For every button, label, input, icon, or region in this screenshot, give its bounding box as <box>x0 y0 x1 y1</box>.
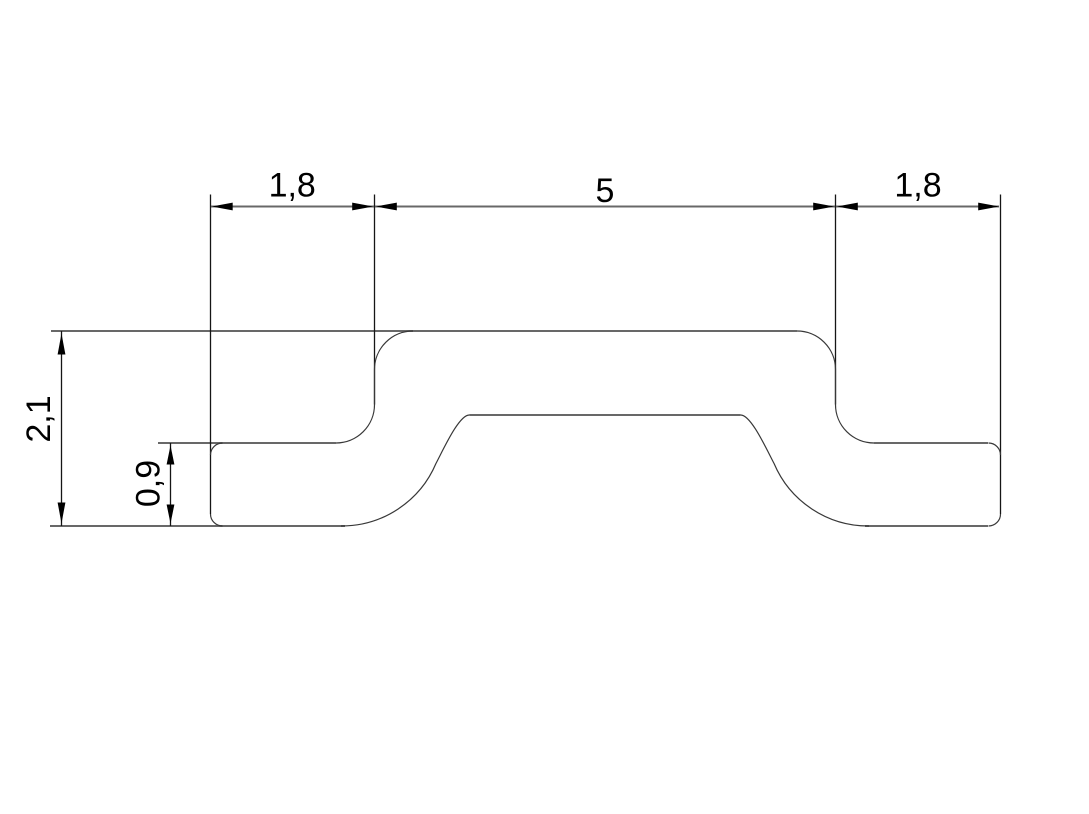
svg-text:0,9: 0,9 <box>130 460 168 507</box>
svg-text:1,8: 1,8 <box>894 166 941 204</box>
svg-text:5: 5 <box>596 172 615 210</box>
svg-text:1,8: 1,8 <box>269 167 316 205</box>
svg-text:2,1: 2,1 <box>20 395 58 442</box>
